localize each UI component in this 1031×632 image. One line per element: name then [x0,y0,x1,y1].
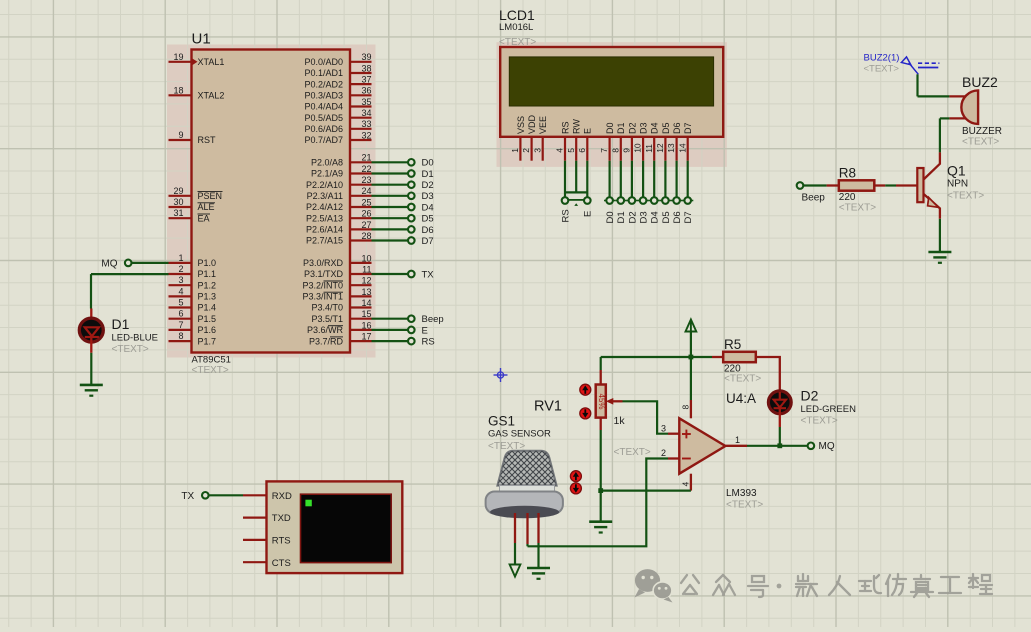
svg-text:1: 1 [735,435,740,445]
svg-text:LM393: LM393 [726,488,757,499]
svg-text:D7: D7 [683,211,694,223]
svg-text:P2.7/A15: P2.7/A15 [306,236,343,246]
power arrow down below sensor [510,565,521,577]
svg-text:34: 34 [361,108,371,118]
gas sensor pin A (left) [514,513,516,543]
svg-text:P2.4/A12: P2.4/A12 [306,202,343,212]
svg-text:RS: RS [422,337,435,348]
svg-text:9: 9 [178,130,183,140]
terminal D6 [408,226,415,233]
svg-text:5: 5 [566,148,576,153]
pin 28 P2.7/A15 stub [350,239,372,241]
svg-text:P1.6: P1.6 [198,325,217,335]
terminal D4 (below LCD) [649,200,660,202]
svg-text:EA: EA [198,213,210,223]
resistor R8 left lead [827,184,839,186]
led D1 body [79,318,103,342]
svg-text:LED-BLUE: LED-BLUE [112,333,158,344]
buzzer BUZ2 pin 2 stub [949,117,965,119]
wire sensor left pin down [514,543,516,566]
svg-text:2: 2 [521,148,531,153]
svg-text:BUZZER: BUZZER [962,126,1002,137]
pot RV1 bottom lead [600,418,602,430]
svg-text:LED-GREEN: LED-GREEN [801,404,857,415]
svg-text:P0.5/AD5: P0.5/AD5 [304,113,343,123]
svg-text:BUZ2(1): BUZ2(1) [864,53,900,64]
resistor R5 left lead [712,356,723,358]
wire P3 to terminal TX [372,273,408,275]
pin 7 P1.6 stub [169,329,192,331]
svg-text:4: 4 [555,148,565,153]
pin 16 P3.6/WR stub [350,329,372,331]
svg-text:25: 25 [361,197,371,207]
svg-text:10: 10 [633,143,643,153]
svg-text:R8: R8 [839,165,856,180]
opamp pin 4 stub [690,474,692,491]
wire RV1 bottom to junction [600,430,602,491]
lcd pin 14 D7 stub [687,137,689,161]
svg-text:P1.0: P1.0 [198,258,217,268]
svg-text:ALE: ALE [198,202,215,212]
svg-text:26: 26 [361,209,371,219]
svg-text:D0: D0 [605,122,615,134]
wire D2 to output net [779,427,781,446]
svg-text:P1.7: P1.7 [198,336,217,346]
svg-text:P2.5/A13: P2.5/A13 [306,213,343,223]
svg-text:37: 37 [361,75,371,85]
pin 37 P0.2/AD2 stub [350,83,372,85]
wire P2.2 to terminal D2 [372,184,408,186]
sensor decrease button [570,483,581,494]
gas sensor base [486,492,563,514]
ground below Q1 [928,252,951,263]
svg-text:3: 3 [532,148,542,153]
svg-text:D1: D1 [422,169,434,180]
lcd pin 7 D0 stub [608,137,610,161]
probe dashed marks [918,63,939,67]
wire junction to opamp pin4 [601,490,691,492]
svg-text:D3: D3 [639,211,650,223]
terminal E (right) [408,327,415,334]
svg-text:P0.1/AD1: P0.1/AD1 [304,68,343,78]
wire R8 to Q1 base [885,184,896,186]
svg-text:MQ: MQ [819,441,835,452]
pin 1 P1.0 stub [169,262,192,264]
lcd pin 10 D3 stub [642,137,644,161]
pot RV1 increase button [580,384,591,395]
wire buzzer to Q1 collector [939,118,941,152]
wire sensor right pin to ground [537,543,539,568]
op-amp plus sign [682,430,691,439]
pin 13 P3.3/INT1 stub [350,295,372,297]
svg-text:3: 3 [178,275,183,285]
led D1 cathode lead [90,337,92,353]
svg-text:8: 8 [610,148,620,153]
terminal D7 (below LCD) [682,200,693,202]
U1 highlight region [167,45,376,358]
wire lcd RW down [575,161,577,193]
terminal D6 (below LCD) [671,200,682,202]
terminal TX (left) [202,492,209,499]
svg-text:35: 35 [361,97,371,107]
svg-text:P1.2: P1.2 [198,280,217,290]
transistor Q1 base bar [917,168,923,202]
pin 3 P1.2 stub [169,284,192,286]
wire sensor middle pin to net [526,544,528,546]
svg-text:33: 33 [361,119,371,129]
wire P3 to terminal RS [372,340,408,342]
svg-text:13: 13 [361,287,371,297]
vt pin RXD stub [243,494,267,496]
pin 30 ALE stub [169,206,192,208]
lcd LCD1 body [500,47,723,137]
wire P2.5 to terminal D5 [372,217,408,219]
wire buzzer pin2 corner [940,117,950,119]
svg-text:P3.3/INT1: P3.3/INT1 [302,292,343,302]
terminal RS (right) [408,338,415,345]
pin 31 EA stub [169,217,192,219]
LCD1 highlight region [497,42,727,167]
svg-text:36: 36 [361,86,371,96]
svg-text:<TEXT>: <TEXT> [801,416,838,427]
wire Beep to R8 [804,184,827,186]
resistor R8 right lead [874,184,885,186]
pin 23 P2.2/A10 stub [350,184,372,186]
pin 29 PSEN stub [169,195,192,197]
pin 26 P2.5/A13 stub [350,217,372,219]
wire pin2 down-left to sensor [528,459,669,547]
pin 12 P3.2/INT0 stub [350,284,372,286]
svg-text:P0.7/AD7: P0.7/AD7 [304,135,343,145]
gas sensor bottom face [490,506,559,518]
terminal D0 [408,159,415,166]
svg-text:6: 6 [577,148,587,153]
terminal RS (below LCD) [562,197,569,204]
svg-text:D5: D5 [661,211,672,223]
svg-text:D1: D1 [112,316,130,332]
wire lcd D2 down [631,161,633,198]
wire between RS and E terminals [569,199,584,201]
terminal MQ (left) [125,260,132,267]
svg-text:P2.2/A10: P2.2/A10 [306,180,343,190]
svg-text:D5: D5 [422,214,434,225]
terminal TX (right) [408,271,415,278]
pin 6 P1.5 stub [169,318,192,320]
pin 25 P2.4/A12 stub [350,206,372,208]
transistor Q1 emitter lead [924,194,940,219]
svg-text:P0.4/AD4: P0.4/AD4 [304,102,343,112]
pot RV1 wiper arrow [606,398,614,405]
wire rail down to opamp pin 8 [690,357,692,400]
pin 36 P0.3/AD3 stub [350,94,372,96]
pin 32 P0.7/AD7 stub [350,139,372,141]
terminal D2 [408,181,415,188]
lcd screen [509,57,713,106]
svg-text:R5: R5 [724,337,741,352]
svg-text:P0.2/AD2: P0.2/AD2 [304,79,343,89]
wire P2.4 to terminal D4 [372,206,408,208]
svg-text:1: 1 [178,253,183,263]
svg-text:CTS: CTS [272,558,291,569]
svg-text:22: 22 [361,164,371,174]
wire lcd D6 down [675,161,677,198]
terminal D0 (below LCD) [604,200,615,202]
terminal D1 (below LCD) [615,200,626,202]
svg-text:D3: D3 [422,191,434,202]
resistor R5 body [723,352,756,362]
svg-text:E: E [583,211,594,217]
svg-text:1k: 1k [614,415,626,427]
terminal Beep (left of R8) [797,182,804,189]
wire probe to buzzer (horizontal) [918,95,950,97]
transistor Q1 emitter arrow [928,198,939,208]
svg-text:10: 10 [361,253,371,263]
wire TX to RXD [209,494,243,496]
pin 15 P3.5/T1 stub [350,318,372,320]
pin 39 P0.0/AD0 stub [350,61,372,63]
pin 14 P3.4/T0 stub [350,306,372,308]
led D2 cathode lead [779,408,781,427]
svg-text:MQ: MQ [101,258,117,269]
svg-text:P2.3/A11: P2.3/A11 [307,191,343,201]
junction D2 / output [777,443,782,448]
wire VCC arrow down to rail [690,332,692,357]
svg-text:<TEXT>: <TEXT> [192,365,229,376]
pin 24 P2.3/A11 stub [350,195,372,197]
svg-text:P3.6/WR: P3.6/WR [307,325,344,335]
pin 10 P3.0/RXD stub [350,262,372,264]
svg-text:18: 18 [173,85,183,95]
pin 35 P0.4/AD4 stub [350,105,372,107]
wire D1 to ground [90,353,92,385]
svg-text:7: 7 [599,148,609,153]
svg-text:2: 2 [661,448,666,458]
svg-text:RST: RST [198,135,217,145]
gas sensor band [500,486,555,493]
svg-text:RS: RS [560,209,571,222]
terminal D2 (below LCD) [626,200,637,202]
svg-text:P1.3: P1.3 [198,292,217,302]
terminal D1 [408,170,415,177]
svg-text:29: 29 [173,186,183,196]
svg-text:D5: D5 [661,122,671,134]
svg-text:<TEXT>: <TEXT> [726,500,763,511]
svg-text:31: 31 [173,208,183,218]
svg-text:D0: D0 [605,211,616,223]
svg-text:P0.0/AD0: P0.0/AD0 [304,57,343,67]
wire P2.1 to terminal D1 [372,172,408,174]
svg-text:D0: D0 [422,158,434,169]
svg-text:14: 14 [677,143,687,153]
wire RS-RW-E bar [565,191,587,193]
svg-text:P1.4: P1.4 [198,303,217,313]
wire P1.1 to D1 (vertical) [90,274,92,308]
svg-text:P3.4/T0: P3.4/T0 [311,303,343,313]
svg-text:D3: D3 [639,122,649,134]
svg-text:<TEXT>: <TEXT> [864,64,900,75]
ground below sensor [527,568,550,579]
lcd pin 2 VDD stub [530,137,532,161]
svg-text:PSEN: PSEN [198,191,223,201]
lcd pin 11 D4 stub [653,137,655,161]
svg-text:<TEXT>: <TEXT> [724,374,761,385]
svg-text:VDD: VDD [527,114,537,134]
pin 21 P2.0/A8 stub [350,161,372,163]
svg-text:P2.6/A14: P2.6/A14 [306,225,343,235]
svg-text:45%: 45% [597,394,606,410]
svg-text:4: 4 [178,286,183,296]
buzzer BUZ2 pin 1 stub [949,95,965,97]
pin 8 P1.7 stub [169,340,192,342]
lcd pin 4 RS stub [564,137,566,161]
svg-text:D7: D7 [422,236,434,247]
pin 33 P0.6/AD6 stub [350,128,372,130]
pin 11 P3.1/TXD stub [350,273,372,275]
svg-text:13: 13 [666,143,676,153]
lcd pin 12 D5 stub [664,137,666,161]
svg-text:4: 4 [681,482,691,487]
terminal D5 [408,215,415,222]
svg-text:GS1: GS1 [488,414,515,429]
lcd pin 6 E stub [586,137,588,161]
terminal screen [301,494,392,562]
svg-text:Q1: Q1 [947,163,966,179]
lcd pin 9 D2 stub [631,137,633,161]
wire P2.6 to terminal D6 [372,228,408,230]
wire pin3 to RV1 wiper (horizontal+vertical) [623,401,669,433]
led D1 diode symbol [85,327,99,337]
lcd pin 1 VSS stub [519,137,521,161]
svg-text:1: 1 [510,148,520,153]
svg-text:39: 39 [361,52,371,62]
buzzer BUZ2 body [961,90,978,124]
transistor Q1 collector lead [924,152,940,179]
svg-text:P3.7/RD: P3.7/RD [309,336,344,346]
terminal MQ (right) [808,443,815,450]
svg-text:Beep: Beep [422,314,444,325]
svg-text:LCD1: LCD1 [499,7,535,23]
terminal cursor [305,500,311,507]
vt pin TXD stub [243,516,267,518]
wire lcd D1 down [620,161,622,198]
svg-text:D4: D4 [422,202,434,213]
svg-text:<TEXT>: <TEXT> [947,191,984,202]
svg-text:<TEXT>: <TEXT> [962,137,999,148]
svg-text:TX: TX [181,491,194,502]
power terminal arrow (VCC) [686,320,697,333]
svg-text:15: 15 [361,309,371,319]
pin 19 XTAL1 stub [169,61,192,63]
opamp pin 8 stub [690,400,692,418]
svg-text:6: 6 [178,309,183,319]
svg-text:21: 21 [361,153,371,163]
pin 9 RST stub [169,139,192,141]
svg-text:<TEXT>: <TEXT> [839,203,876,214]
ground below D1 [80,385,103,396]
wire rail to RV1 top [600,357,602,370]
svg-text:U1: U1 [192,31,211,48]
svg-text:38: 38 [361,63,371,73]
pot RV1 decrease button [580,408,591,419]
svg-text:D2: D2 [627,122,637,134]
lcd pin 3 VEE stub [542,137,544,161]
origin marker (blue cross) [494,368,508,382]
wire Q1 emitter to ground [939,219,941,252]
svg-text:RV1: RV1 [534,399,562,415]
svg-text:D2: D2 [422,180,434,191]
svg-text:3: 3 [661,423,666,433]
opamp pin 2 stub [668,457,679,459]
pin 18 XTAL2 stub [169,94,192,96]
pin 17 P3.7/RD stub [350,340,372,342]
svg-text:5: 5 [178,298,183,308]
svg-text:RXD: RXD [272,491,292,502]
svg-text:<TEXT>: <TEXT> [112,344,149,355]
sensor increase button [570,471,581,482]
vt pin RTS stub [243,539,267,541]
terminal Beep (right) [408,315,415,322]
svg-text:D1: D1 [616,122,626,134]
svg-text:P3.5/T1: P3.5/T1 [311,314,343,324]
tiny ground marker between RS and E [574,203,578,206]
svg-text:D2: D2 [801,388,819,404]
svg-text:12: 12 [361,276,371,286]
wire power rail horizontal [601,356,712,358]
svg-text:32: 32 [361,130,371,140]
svg-text:XTAL1: XTAL1 [198,57,225,67]
svg-text:P2.1/A9: P2.1/A9 [311,169,343,179]
svg-text:E: E [583,128,593,134]
svg-text:D1: D1 [616,211,627,223]
wire P2.0 to terminal D0 [372,161,408,163]
svg-text:RTS: RTS [272,536,291,547]
svg-text:16: 16 [361,320,371,330]
pin 2 P1.1 stub [169,273,192,275]
svg-text:LM016L: LM016L [499,22,533,33]
terminal E (below LCD) [584,197,591,204]
pin 27 P2.6/A14 stub [350,228,372,230]
svg-text:D6: D6 [672,122,682,134]
pin 5 P1.4 stub [169,306,192,308]
wire P3 to terminal E [372,329,408,331]
terminal D7 [408,237,415,244]
wire lcd D4 down [653,161,655,198]
svg-text:RW: RW [572,119,582,134]
svg-text:P0.3/AD3: P0.3/AD3 [304,91,343,101]
svg-text:D2: D2 [627,211,638,223]
mcu U1 body [192,50,351,353]
ground below RV1 [589,522,612,533]
svg-text:14: 14 [361,298,371,308]
svg-text:D6: D6 [672,211,683,223]
resistor R5 right lead [756,357,780,390]
wire lcd D5 down [664,161,666,198]
wire lcd RS down [564,161,566,198]
wire P3 to terminal Beep [372,318,408,320]
watermark wechat icon [635,569,673,602]
svg-text:11: 11 [644,144,654,153]
svg-text:9: 9 [622,148,632,153]
svg-text:D4: D4 [650,211,661,223]
svg-text:P3.2/INT0: P3.2/INT0 [302,280,343,290]
svg-text:D4: D4 [650,122,660,134]
svg-text:220: 220 [839,192,856,203]
svg-text:19: 19 [173,52,183,62]
resistor R8 body [839,180,875,190]
svg-text:RS: RS [560,121,570,134]
terminal D3 (below LCD) [638,200,649,202]
svg-text:27: 27 [361,220,371,230]
